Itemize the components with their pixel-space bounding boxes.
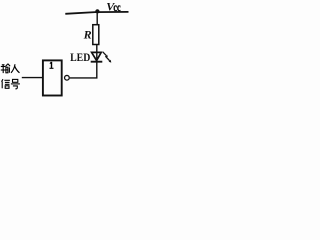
LED light arrow 1 — [103, 52, 108, 57]
wire LED cathode down and left to gate output — [70, 62, 97, 78]
resistor R — [93, 25, 99, 45]
wire input to gate — [22, 77, 43, 79]
inverter gate U1 box — [43, 60, 62, 95]
入 — [11, 64, 20, 73]
label 信号 (signal) hand-drawn glyphs — [2, 79, 20, 89]
LED D1 triangle — [92, 52, 102, 60]
junction node at Vcc rail — [95, 9, 99, 13]
svg-text:LED: LED — [70, 50, 90, 64]
svg-text:R: R — [83, 27, 92, 41]
wire rail to resistor — [96, 12, 98, 26]
输 — [1, 64, 10, 73]
gate function label 1 (hand-drawn serif one) — [50, 62, 54, 68]
LED cathode bar — [91, 61, 103, 63]
inverter output bubble — [65, 75, 70, 80]
svg-text:cc: cc — [113, 2, 120, 14]
LED light arrow 2 — [105, 56, 111, 62]
信 — [2, 79, 10, 88]
号 — [11, 79, 20, 88]
label 输入 (input) hand-drawn glyphs — [1, 64, 20, 73]
wire resistor to LED anode (passes through triangle) — [96, 45, 98, 62]
wire Vcc rail — [65, 12, 128, 14]
